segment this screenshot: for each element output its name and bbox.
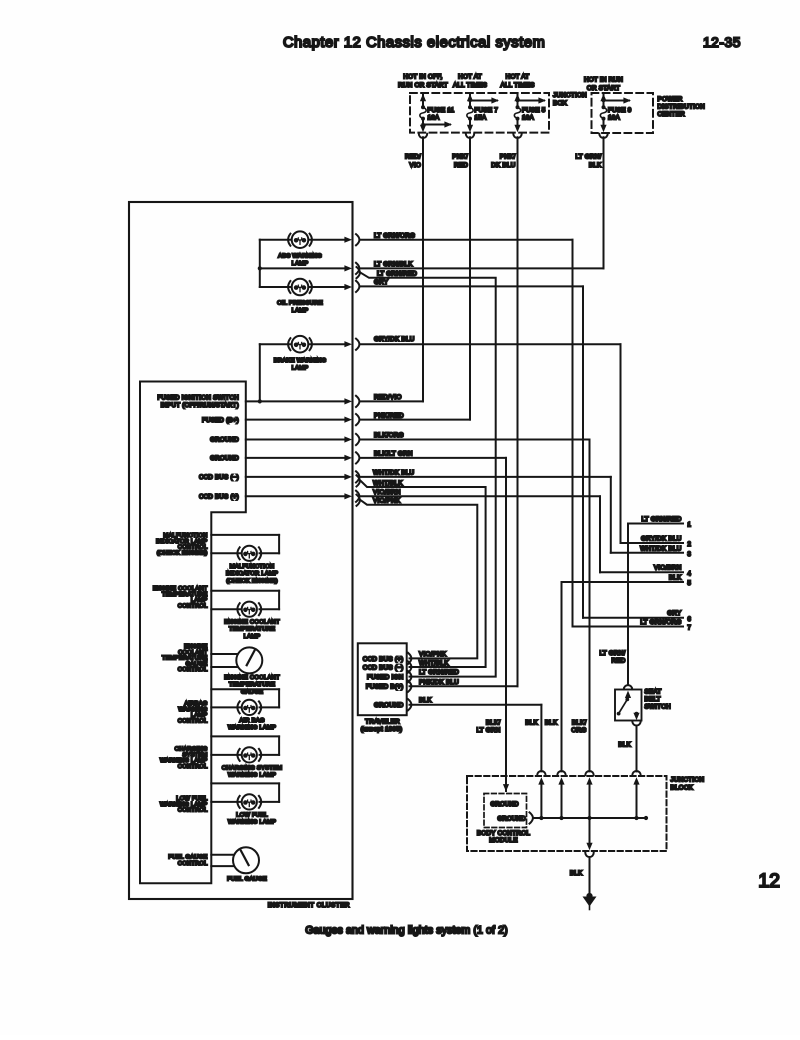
- wire label VIO/PNK: [373, 497, 401, 504]
- svg-text:6: 6: [688, 617, 692, 623]
- fuse FUSE 7 feed wires: [467, 94, 499, 132]
- fuel gauge: [233, 847, 259, 873]
- svg-text:CONTROL: CONTROL: [178, 603, 208, 609]
- seat belt switch U1: [615, 690, 642, 721]
- malfunction indicator lamp: [237, 546, 261, 561]
- wire label GRY: [374, 279, 389, 286]
- svg-text:10A: 10A: [608, 114, 621, 121]
- hot feed label FUSE 5: [500, 74, 534, 89]
- svg-text:VIO: VIO: [409, 162, 421, 169]
- svg-text:5: 5: [688, 581, 692, 587]
- chapter thumb index 12: [758, 870, 780, 892]
- label BLK riser 2: [545, 720, 558, 727]
- wire label PNK/RED: [374, 412, 404, 419]
- fuse FUSE 9 feed wires: [600, 94, 631, 132]
- svg-text:BLK: BLK: [570, 870, 583, 877]
- svg-text:GRY: GRY: [374, 279, 389, 286]
- svg-text:FUSE 5: FUSE 5: [522, 107, 546, 114]
- svg-text:ABS WARNING: ABS WARNING: [278, 254, 322, 260]
- wire to terminal 6: [583, 617, 683, 619]
- brake warning lamp: [288, 336, 312, 353]
- fuse FUSE 5 10A: [514, 105, 520, 120]
- svg-text:FUSED (B+): FUSED (B+): [202, 417, 239, 424]
- svg-text:OR START: OR START: [587, 85, 620, 92]
- brake warning lamp label: [274, 358, 327, 372]
- svg-text:LAMP: LAMP: [292, 366, 309, 372]
- wire PNK/DK BLU: [410, 137, 518, 686]
- svg-text:HOT AT: HOT AT: [506, 74, 530, 81]
- label BLK (ground wire): [570, 870, 583, 877]
- svg-text:VIO/PNK: VIO/PNK: [419, 651, 447, 658]
- wire WHT/DK BLU: [361, 477, 611, 553]
- svg-text:VIO/BRN: VIO/BRN: [654, 565, 682, 572]
- svg-text:BLK: BLK: [589, 162, 602, 169]
- svg-text:SWITCH: SWITCH: [645, 704, 672, 711]
- connector below FUSE 9: [599, 134, 607, 138]
- wire cluster CCD+ output: [246, 493, 352, 499]
- svg-text:CCD BUS (+): CCD BUS (+): [199, 494, 239, 501]
- seat belt switch label: [645, 689, 672, 711]
- wire to terminal 4: [600, 571, 683, 573]
- connector below FUSE 11: [419, 134, 427, 138]
- label BLK/LT GRN (riser): [476, 720, 500, 735]
- svg-text:FUSED IGNITION SWITCH: FUSED IGNITION SWITCH: [158, 395, 239, 402]
- svg-text:2: 2: [688, 542, 692, 548]
- low fuel warning lamp label: [228, 813, 276, 826]
- svg-text:3: 3: [688, 552, 692, 558]
- malfunction indicator lamp label: [226, 564, 278, 584]
- body control module box (dashed): [484, 794, 527, 828]
- svg-text:BELT: BELT: [645, 696, 661, 703]
- connector below seat belt switch: [632, 721, 640, 725]
- wire PNK/RED: [361, 137, 471, 419]
- svg-text:FUEL GAUGE: FUEL GAUGE: [227, 877, 267, 883]
- wire to terminal 3: [611, 552, 683, 554]
- svg-text:ENGINE COOLANT: ENGINE COOLANT: [224, 620, 280, 626]
- svg-text:CONTROL: CONTROL: [178, 718, 208, 724]
- junction block connector BLK (terminal 5): [557, 771, 565, 818]
- wire BLK from seat belt switch: [636, 726, 638, 772]
- svg-text:FUSED B(+): FUSED B(+): [366, 684, 404, 691]
- junction dot FUSED IGN / brake bus: [258, 399, 262, 403]
- svg-text:WHT/DK BLU: WHT/DK BLU: [640, 545, 682, 552]
- svg-text:1: 1: [688, 523, 692, 529]
- svg-text:BRAKE WARNING: BRAKE WARNING: [274, 358, 327, 364]
- wire BLK/ORG: [361, 440, 590, 772]
- svg-text:INPUT (OFF/RUN/START): INPUT (OFF/RUN/START): [161, 402, 239, 409]
- wire brake lamp bus: [260, 344, 290, 401]
- cluster control labels lower: [153, 533, 208, 867]
- wire lamp feed bus (ABS/oil): [259, 240, 261, 287]
- wire cluster GROUND2 output: [246, 455, 352, 461]
- svg-text:MODULE: MODULE: [489, 837, 517, 844]
- terminal 7 label LT GRN/ORG: [640, 619, 681, 626]
- svg-text:PNK/DK BLU: PNK/DK BLU: [419, 679, 459, 686]
- wire BLK/LT GRN: [361, 458, 510, 792]
- wire to terminal 1: [628, 523, 683, 525]
- terminal 3 label WHT/DK BLU: [640, 545, 682, 552]
- wire temp gauge leads: [211, 654, 237, 667]
- svg-text:BLOCK: BLOCK: [671, 785, 694, 792]
- fuse FUSE 9 10A: [600, 105, 606, 120]
- ABS warning lamp: [288, 231, 312, 248]
- svg-text:(except 1995): (except 1995): [361, 726, 403, 733]
- svg-text:CCD BUS (+): CCD BUS (+): [363, 656, 404, 663]
- svg-text:12-35: 12-35: [703, 35, 741, 50]
- pin number 6: [688, 617, 692, 623]
- svg-text:WARNING LAMP: WARNING LAMP: [228, 725, 276, 731]
- page header text: [283, 35, 545, 51]
- svg-text:(CHECK ENGINE): (CHECK ENGINE): [157, 550, 208, 556]
- svg-text:JUNCTION: JUNCTION: [671, 777, 705, 784]
- svg-text:BOX: BOX: [553, 100, 568, 107]
- wire LT GRN/BLK: [361, 137, 604, 268]
- svg-text:TRAVELER: TRAVELER: [365, 719, 400, 726]
- svg-text:GROUND: GROUND: [491, 802, 520, 808]
- svg-text:Gauges and warning lights syst: Gauges and warning lights system (1 of 2…: [305, 925, 508, 937]
- wire VIO/PNK: [361, 500, 478, 658]
- label LT GRN/RED (seat belt feed): [599, 650, 625, 665]
- svg-text:CONTROL: CONTROL: [178, 808, 208, 814]
- svg-text:BLK: BLK: [525, 720, 538, 727]
- power distribution center label: [658, 96, 706, 118]
- pin number 5: [688, 581, 692, 587]
- svg-text:RED: RED: [454, 162, 468, 169]
- svg-text:GRY/DK BLU: GRY/DK BLU: [641, 535, 682, 542]
- wire RED/VIO: [361, 137, 424, 401]
- svg-text:BLK: BLK: [669, 574, 682, 581]
- svg-text:GAUGE: GAUGE: [241, 689, 263, 695]
- svg-text:LT GRN/RED: LT GRN/RED: [419, 669, 459, 676]
- junction block exit connector: [585, 853, 593, 857]
- svg-text:ORG: ORG: [571, 727, 586, 734]
- wire engine coolant temperature lamp loop: [211, 591, 279, 610]
- svg-text:WARNING LAMP: WARNING LAMP: [228, 773, 276, 779]
- chassis ground symbol: [583, 893, 597, 910]
- svg-text:GROUND: GROUND: [210, 437, 239, 444]
- svg-text:PNK/: PNK/: [452, 154, 468, 161]
- wire label LT GRN/BLK: [374, 261, 413, 268]
- svg-text:LT GRN/RED: LT GRN/RED: [377, 271, 417, 278]
- svg-text:HOT AT: HOT AT: [458, 74, 482, 81]
- oil pressure lamp label: [277, 301, 323, 315]
- svg-text:AIR BAG: AIR BAG: [239, 718, 265, 724]
- body control module label: [477, 830, 531, 844]
- wire BLK terminal 5 riser: [561, 582, 563, 771]
- svg-text:LT GRN/RED: LT GRN/RED: [641, 516, 681, 523]
- svg-text:BODY CONTROL: BODY CONTROL: [477, 830, 531, 837]
- pin number 4: [688, 572, 692, 578]
- svg-text:LAMP: LAMP: [292, 261, 309, 267]
- wire LT GRN/RED to seat belt switch: [627, 524, 629, 685]
- fuel gauge label: [227, 877, 267, 883]
- wire label LT GRN/BLK (fuse 9 output): [575, 154, 602, 170]
- svg-text:RUN OR START: RUN OR START: [398, 82, 448, 89]
- svg-text:GROUND: GROUND: [374, 702, 404, 709]
- cluster control unit box: [140, 382, 246, 884]
- fuse FUSE 7 value label: [475, 107, 499, 121]
- charging system warning lamp: [237, 747, 261, 762]
- svg-text:FUSE 11: FUSE 11: [428, 107, 455, 114]
- terminal 5 label BLK: [669, 574, 682, 581]
- svg-text:BLK/LT GRN: BLK/LT GRN: [374, 451, 413, 458]
- engine coolant temperature gauge: [236, 647, 262, 673]
- wire cluster GROUND1 output: [246, 436, 352, 442]
- oil pressure lamp: [288, 279, 312, 296]
- instrument cluster box: [129, 202, 353, 899]
- junction block label: [671, 777, 705, 792]
- svg-text:FUSE 7: FUSE 7: [475, 107, 499, 114]
- wire label RED/VIO (fuse 11 output): [405, 154, 421, 170]
- wire air bag warning lamp loop: [211, 689, 279, 707]
- body control module connector: [530, 812, 533, 823]
- svg-text:CHARGING SYSTEM: CHARGING SYSTEM: [222, 766, 283, 772]
- wire oil lamp to connector: [310, 284, 352, 290]
- svg-text:FUEL GAUGE: FUEL GAUGE: [168, 855, 207, 861]
- junction box label: [553, 92, 587, 107]
- wire GRY: [361, 286, 584, 617]
- svg-text:BLK: BLK: [545, 720, 558, 727]
- engine coolant temperature lamp label: [224, 620, 280, 640]
- junction dot lamp bus: [258, 266, 262, 270]
- svg-text:LT GRN/: LT GRN/: [575, 154, 601, 161]
- wire LT GRN/ORG: [361, 240, 573, 627]
- svg-text:OIL PRESSURE: OIL PRESSURE: [277, 301, 323, 307]
- wire cluster FUSED B+ output: [246, 417, 352, 423]
- terminal 2 label GRY/DK BLU: [641, 535, 682, 542]
- svg-text:DK BLU: DK BLU: [491, 162, 515, 169]
- low fuel warning lamp: [237, 794, 261, 809]
- diagram caption: [305, 925, 508, 937]
- wire label PNK/DK BLU (fuse 5 output): [491, 154, 515, 170]
- svg-text:WHT/DK BLU: WHT/DK BLU: [373, 470, 415, 477]
- svg-text:POWER: POWER: [658, 96, 683, 103]
- svg-text:DISTRIBUTION: DISTRIBUTION: [658, 104, 706, 111]
- wire label WHT/BLK: [373, 480, 403, 487]
- svg-text:Chapter 12 Chassis electrical: Chapter 12 Chassis electrical system: [283, 35, 545, 51]
- wire VIO/BRN: [361, 496, 601, 572]
- svg-text:LT GRN/BLK: LT GRN/BLK: [374, 261, 413, 268]
- svg-text:INSTRUMENT CLUSTER: INSTRUMENT CLUSTER: [268, 902, 350, 909]
- svg-text:BLK/: BLK/: [486, 720, 501, 727]
- engine coolant temperature lamp: [237, 602, 261, 617]
- wire label RED/VIO: [374, 394, 402, 401]
- wire label LT GRN/ORG: [374, 232, 415, 239]
- wire cluster CCD- output: [246, 474, 352, 480]
- pin number 1: [688, 523, 692, 529]
- svg-text:PNK/: PNK/: [500, 154, 516, 161]
- svg-text:LT GRN: LT GRN: [476, 727, 500, 734]
- junction block (dashed): [467, 776, 667, 851]
- svg-text:ALL TIMES: ALL TIMES: [453, 82, 487, 89]
- air bag warning lamp: [237, 700, 261, 715]
- wire to terminal 7: [573, 626, 684, 628]
- wire label GRY/DK BLU: [374, 336, 415, 343]
- svg-text:PNK/RED: PNK/RED: [374, 412, 404, 419]
- wire label LT GRN/RED: [377, 271, 417, 278]
- air bag warning lamp label: [228, 718, 276, 731]
- traveler connector arcs: [408, 653, 411, 711]
- svg-text:SEAT: SEAT: [645, 689, 662, 696]
- fuse FUSE 5 value label: [522, 107, 546, 121]
- wire label PNK/RED (fuse 7 output): [452, 154, 468, 170]
- pin number 2: [688, 542, 692, 548]
- svg-text:12: 12: [758, 870, 780, 892]
- svg-text:LAMP: LAMP: [292, 308, 309, 314]
- wire ABS lamp leads: [260, 239, 290, 241]
- connector below FUSE 5: [513, 134, 521, 138]
- wire malfunction indicator lamp loop: [211, 535, 279, 553]
- svg-text:WHT/BLK: WHT/BLK: [419, 660, 449, 667]
- svg-text:7: 7: [688, 626, 692, 632]
- wire to terminal 5: [562, 581, 684, 583]
- engine coolant temperature gauge label: [224, 675, 280, 695]
- label BLK/ORG (riser): [571, 720, 586, 735]
- fuse FUSE 9 value label: [608, 107, 632, 121]
- wire label VIO/BRN: [373, 489, 401, 496]
- svg-text:BLK: BLK: [419, 697, 432, 704]
- wire ABS lamp to connector: [310, 237, 352, 243]
- svg-text:4: 4: [688, 572, 692, 578]
- svg-text:TEMPERATURE: TEMPERATURE: [229, 627, 275, 633]
- svg-text:WHT/BLK: WHT/BLK: [373, 480, 403, 487]
- wire BLK below junction block: [589, 857, 591, 897]
- connector below FUSE 7: [466, 134, 474, 138]
- junction box (dashed): [410, 93, 549, 133]
- label BLK riser 1: [525, 720, 538, 727]
- ABS warning lamp label: [278, 254, 322, 268]
- wire label WHT/DK BLU: [373, 470, 415, 477]
- svg-text:GROUND: GROUND: [498, 817, 527, 823]
- pin number 3: [688, 552, 692, 558]
- body control module ground labels: [491, 802, 527, 823]
- svg-text:GRY: GRY: [667, 610, 682, 617]
- instrument cluster label: [268, 902, 350, 909]
- svg-text:15A: 15A: [475, 114, 488, 121]
- wire LT GRN/RED (cluster to traveler): [361, 273, 496, 677]
- svg-text:WARNING LAMP: WARNING LAMP: [228, 820, 276, 826]
- label BLK (seat belt): [618, 742, 631, 749]
- svg-text:(CHECK ENGINE): (CHECK ENGINE): [226, 578, 278, 584]
- fuse FUSE 7 15A: [467, 105, 473, 120]
- svg-text:CCD BUS (−): CCD BUS (−): [363, 665, 404, 672]
- wire LT GRN/BLK inside cluster: [260, 265, 352, 271]
- fuse FUSE 11 feed wires: [420, 94, 452, 132]
- wire to terminal 2: [621, 542, 684, 544]
- svg-text:LT GRN/ORG: LT GRN/ORG: [374, 232, 415, 239]
- svg-text:RED/VIO: RED/VIO: [374, 394, 402, 401]
- svg-text:RED/: RED/: [405, 154, 421, 161]
- wire BLK to chassis ground: [586, 818, 592, 850]
- svg-text:10A: 10A: [428, 114, 441, 121]
- svg-text:CCD BUS (−): CCD BUS (−): [199, 474, 239, 481]
- wire fuel gauge leads: [211, 855, 234, 866]
- junction block connector BLK/ORG: [585, 771, 593, 818]
- page number 12-35: [703, 35, 741, 50]
- svg-text:TEMPERATURE: TEMPERATURE: [229, 682, 275, 688]
- wire GRY/DK BLU: [361, 344, 621, 543]
- svg-text:10A: 10A: [522, 114, 535, 121]
- wire cluster FUSED IGN output: [246, 398, 352, 404]
- traveler module box: [358, 643, 407, 715]
- traveler wire labels: [419, 651, 459, 704]
- svg-text:VIO/BRN: VIO/BRN: [373, 489, 401, 496]
- svg-text:BLK: BLK: [618, 742, 631, 749]
- svg-text:BLK/ORG: BLK/ORG: [374, 432, 404, 439]
- svg-text:CONTROL: CONTROL: [178, 861, 208, 867]
- svg-text:LT GRN/ORG: LT GRN/ORG: [640, 619, 681, 626]
- fuse FUSE 5 feed wires: [514, 94, 546, 132]
- svg-text:FUSED IGN: FUSED IGN: [367, 674, 404, 681]
- wire low fuel warning lamp loop: [211, 783, 279, 802]
- hot feed label FUSE 9: [584, 77, 623, 92]
- wire label BLK/LT GRN: [374, 451, 413, 458]
- terminal 4 label VIO/BRN: [654, 565, 682, 572]
- fuse FUSE 11 10A: [420, 105, 426, 120]
- terminal 1 label LT GRN/RED: [641, 516, 681, 523]
- svg-text:LAMP: LAMP: [244, 634, 261, 640]
- svg-text:RED: RED: [611, 658, 625, 665]
- fuse FUSE 11 value label: [428, 107, 455, 121]
- wire brake lamp to connector: [310, 341, 352, 347]
- svg-text:INDICATOR LAMP: INDICATOR LAMP: [226, 571, 278, 577]
- svg-text:HOT IN RUN: HOT IN RUN: [584, 77, 623, 84]
- traveler label: [361, 719, 403, 734]
- svg-text:LOW FUEL: LOW FUEL: [236, 813, 268, 819]
- svg-text:JUNCTION: JUNCTION: [553, 92, 587, 99]
- junction block connector BLK (seat belt): [632, 771, 640, 818]
- wire charging system warning lamp loop: [211, 736, 279, 755]
- svg-text:MALFUNCTION: MALFUNCTION: [230, 564, 275, 570]
- svg-text:VIO/PNK: VIO/PNK: [373, 497, 401, 504]
- svg-text:BLK/: BLK/: [572, 720, 587, 727]
- svg-text:CONTROL: CONTROL: [178, 667, 208, 673]
- pin number 7: [688, 626, 692, 632]
- junction block connector BLK (traveler): [537, 771, 545, 818]
- cluster control labels upper: [158, 395, 240, 501]
- svg-text:CONTROL: CONTROL: [178, 764, 208, 770]
- wire ground bus in junction block: [534, 816, 649, 820]
- svg-text:ENGINE COOLANT: ENGINE COOLANT: [224, 675, 280, 681]
- hot feed label FUSE 7: [453, 74, 487, 89]
- svg-text:ALL TIMES: ALL TIMES: [500, 82, 534, 89]
- svg-text:FUSE 9: FUSE 9: [608, 107, 632, 114]
- power distribution center (dashed): [592, 93, 654, 133]
- cluster connector arcs: [356, 234, 360, 506]
- wire WHT/BLK: [361, 481, 486, 667]
- wire label BLK/ORG: [374, 432, 404, 439]
- svg-text:CENTER: CENTER: [658, 111, 686, 118]
- svg-text:LT GRN/: LT GRN/: [599, 650, 625, 657]
- svg-text:HOT IN OFF,: HOT IN OFF,: [403, 74, 442, 81]
- svg-text:GRY/DK BLU: GRY/DK BLU: [374, 336, 415, 343]
- charging system warning lamp label: [222, 766, 283, 779]
- wire oil lamp lead: [260, 286, 290, 288]
- svg-text:GROUND: GROUND: [210, 455, 239, 462]
- connector above seat belt switch: [624, 685, 632, 689]
- terminal 6 label GRY: [667, 610, 682, 617]
- wire BLK traveler ground: [410, 705, 542, 772]
- hot feed label FUSE 11: [398, 74, 448, 89]
- traveler pin labels: [363, 656, 404, 709]
